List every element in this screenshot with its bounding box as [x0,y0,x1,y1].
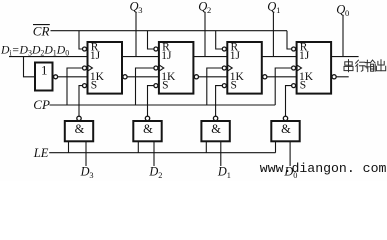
and-gate G1 output bubble [77,116,81,120]
node D3 label [80,164,94,180]
flip-flop U1 R input bubble [83,47,87,51]
and-gate G2 box [133,121,161,141]
node CR label (active-low clear) [33,23,50,38]
flip-flop U3 R input bubble [222,47,226,51]
svg-text:LE: LE [33,146,49,160]
wire Q3 vertical [135,12,137,57]
svg-text:D: D [217,164,227,178]
flip-flop U4 Qbar output bubble [332,75,336,79]
node D2 label [148,164,162,180]
svg-text:1J: 1J [230,50,241,62]
flip-flop U2 Qbar output bubble [194,75,198,79]
wire U3 Qbar to U4 1K [267,76,297,78]
and-gate G4 box [271,121,299,141]
wire LE to G4 input [275,141,277,152]
wire Q1 vertical [272,12,274,57]
wire D3 to G1 input [85,141,87,166]
flip-flop U3 CLK input bubble [222,66,226,70]
svg-text:www.diangon. com: www.diangon. com [260,161,387,176]
and-gate G4 output bubble [283,116,287,120]
svg-text:Q: Q [130,0,139,14]
wire AND gate G2 output up to U2 S input [148,86,154,117]
flip-flop U2 S input bubble [154,84,158,88]
and-gate G3 box [201,121,229,141]
wire U3 Q to U4 1J [262,56,297,58]
flip-flop U4 CLK input bubble [292,66,296,70]
svg-text:Q: Q [336,2,345,16]
wire AND gate G3 output up to U3 S input [216,86,223,117]
flip-flop U1 S input bubble [83,84,87,88]
flip-flop U2 clock chevron [159,65,164,71]
svg-text:2: 2 [207,5,211,15]
wire U2 Q to U3 1J [193,56,227,58]
node Q2 label [198,0,211,15]
node serial output label 串行输出 [344,60,386,72]
wire Q0 vertical [342,15,344,57]
svg-text:1: 1 [41,63,48,78]
svg-text:S: S [91,80,97,92]
svg-text:S: S [300,80,306,92]
flip-flop U3 (JK) box [227,42,261,94]
flip-flop U1 Qbar output bubble [123,75,127,79]
wire CR drop to U3 R input [216,31,223,49]
svg-text:&: & [211,122,221,136]
wire CP riser to U3 CLK input [207,68,223,105]
svg-text:S: S [231,80,237,92]
svg-text:&: & [75,122,85,136]
node Q0 label [336,2,349,18]
wire inverter output to FF1 1K [58,76,88,78]
wire CR drop to U2 R input [148,31,154,49]
wire LE to G3 input [205,141,207,152]
wire U1 Qbar to U2 1K [127,76,159,78]
wire CP riser to U1 CLK input [67,68,83,105]
wire CR drop to U4 R input [287,31,292,49]
svg-text:D: D [80,164,90,178]
flip-flop U2 R input bubble [154,47,158,51]
flip-flop U4 clock chevron [297,65,302,71]
wire LE to G2 input [137,141,139,152]
and-gate G2 output bubble [145,116,149,120]
flip-flop U1 (JK) box [88,42,123,94]
svg-text:2: 2 [158,171,162,180]
node Q3 label [130,0,143,15]
wire U2 Qbar to U3 1K [199,76,228,78]
flip-flop U3 clock chevron [227,65,232,71]
wire D0 to G4 input [289,141,291,166]
wire Di input to FF1 1J [9,56,88,58]
wire CR bus [51,30,288,32]
wire LE to G1 input [68,141,70,152]
inverter gate 1 (NOT) box [35,63,53,91]
svg-text:CP: CP [33,97,50,112]
wire LE bus [49,152,275,154]
svg-text:3: 3 [89,171,93,180]
wire AND gate G4 output up to U4 S input [286,86,292,117]
svg-text:&: & [281,122,291,136]
wire D1 to G3 input [220,141,222,166]
wire U4 Qbar stub [336,76,349,78]
node D0 label [283,164,297,180]
svg-text:3: 3 [138,5,142,15]
svg-text:CR: CR [33,23,50,38]
wire CP riser to U4 CLK input [275,68,291,105]
wire CP bus [50,104,276,106]
node CP label [33,97,50,112]
flip-flop U4 (JK) box [297,42,332,94]
svg-text:Q: Q [267,0,276,14]
wire D2 to G2 input [153,141,155,166]
svg-text:1: 1 [227,171,231,180]
svg-text:1J: 1J [161,50,172,62]
svg-text:1J: 1J [90,50,101,62]
and-gate G3 output bubble [213,116,217,120]
flip-flop U4 S input bubble [292,84,296,88]
svg-text:S: S [162,80,168,92]
wire Q2 vertical [204,12,206,57]
flip-flop U3 S input bubble [222,84,226,88]
and-gate G1 box [65,121,93,141]
svg-text:1: 1 [276,5,280,15]
svg-text:&: & [143,122,153,136]
wire U1 Q to U2 1J [122,56,159,58]
node LE label [33,146,49,160]
flip-flop U3 Qbar output bubble [263,75,267,79]
wire CP riser to U2 CLK input [136,68,154,105]
wire AND gate G1 output up to U1 S input [79,86,83,117]
svg-text:Q: Q [198,0,207,14]
inverter output bubble [54,75,58,79]
svg-text:D: D [148,164,158,178]
node Di=D3D2D1D0 input label [0,43,69,57]
wire U4 Q to serial output [331,56,359,58]
svg-text:0: 0 [345,8,349,18]
flip-flop U2 (JK) box [159,42,194,94]
flip-flop U2 CLK input bubble [154,66,158,70]
flip-flop U4 R input bubble [292,47,296,51]
flip-flop U1 CLK input bubble [83,66,87,70]
flip-flop U1 clock chevron [88,65,93,71]
node Q1 label [267,0,280,15]
node D1 label [217,164,231,180]
wire CR drop to U1 R input [79,31,83,49]
wire Di branch down to inverter input [24,57,36,77]
svg-text:1J: 1J [299,50,310,62]
